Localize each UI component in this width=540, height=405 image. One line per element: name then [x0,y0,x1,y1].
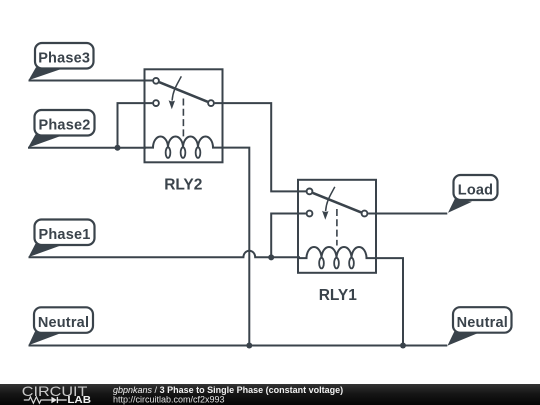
RLY1 pin1 [307,189,313,195]
junction Phase2/coil [115,145,121,151]
flag Neutral right [448,307,512,345]
svg-text:Phase2: Phase2 [39,118,91,134]
junction neutral/RLY2 coil [246,343,252,349]
RLY1 coil [298,247,376,258]
flag Phase1 [29,220,95,258]
logo diode [51,397,57,404]
svg-text:RLY2: RLY2 [164,177,202,194]
RLY2 switch arm [159,82,207,102]
RLY2 pin2 [153,100,159,106]
svg-text:Load: Load [458,183,493,199]
flag Neutral left [29,307,94,345]
wire Phase3 to RLY2 pin1 [29,80,153,82]
flag Load [448,175,498,213]
svg-text:Phase1: Phase1 [39,227,91,243]
wire RLY2 right pin to RLY1 pin1 [215,103,306,191]
wire RLY1 coil out down to neutral [376,258,403,345]
RLY2 common pin [208,100,214,106]
RLY1 dashed link [336,209,338,246]
relay RLY2 [145,69,223,193]
svg-text:Phase3: Phase3 [38,51,90,67]
svg-text:LAB: LAB [67,395,91,405]
footer bar [0,384,540,405]
svg-text:Neutral: Neutral [457,315,508,331]
wire Neutral bus [29,345,448,347]
wire RLY1 right pin to Load [368,213,447,215]
wire junction riser Phase2 to RLY2 pin2 [118,103,153,148]
RLY2 body [145,69,223,162]
svg-text:RLY1: RLY1 [319,287,358,304]
relay RLY1 [298,180,376,304]
wire RLY1 pin2 to Phase1 net [271,214,306,258]
wire Phase2 to RLY2 coil [28,147,146,149]
RLY2 actuation arrow [172,76,181,100]
RLY1 actuation arrow [326,187,335,211]
junction Phase1/RLY1 pin2 [268,254,274,260]
svg-text:Neutral: Neutral [38,315,89,331]
RLY1 common pin [362,211,368,217]
svg-text:http://circuitlab.com/cf2x993: http://circuitlab.com/cf2x993 [113,395,225,405]
RLY1 switch arm [313,193,361,213]
RLY1 body [298,180,376,273]
wire Phase1 to RLY1 coil with hop [29,251,301,258]
flag Phase2 [28,110,95,148]
RLY1 pin2 [307,211,313,217]
junction neutral/RLY1 coil [400,343,406,349]
logo resistor [24,397,52,403]
flag Phase3 [29,43,94,80]
RLY2 pin1 [153,78,159,84]
RLY2 dashed link [182,99,184,138]
RLY2 coil [145,137,223,148]
wire RLY2 coil out down to neutral [223,148,250,346]
